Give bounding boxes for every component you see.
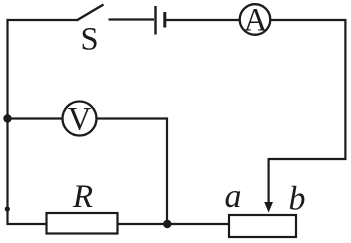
svg-text:S: S [80,22,98,58]
wire bottom right (resistor to rheostat) [117,223,230,225]
svg-text:R: R [72,179,93,215]
svg-text:a: a [225,178,242,215]
svg-text:A: A [244,3,268,39]
wire ammeter to top-right corner [271,19,347,21]
wiper arrow [264,158,273,213]
voltmeter V [8,102,168,225]
resistor R [47,179,118,234]
node junction bottom (voltmeter tap) [163,220,171,228]
node small blob left lower [5,206,10,211]
rheostat a-b [225,178,306,237]
node junction left (voltmeter tap) [3,114,11,122]
wire right vertical [344,19,346,160]
battery [156,6,240,35]
wire bottom left (to resistor) [7,223,48,225]
wire horizontal to wiper [269,158,347,160]
wire left vertical [6,19,8,225]
wire top-left horizontal [7,19,78,21]
ammeter A [240,3,271,39]
switch S [77,5,155,58]
svg-text:b: b [289,181,306,218]
svg-text:V: V [68,102,92,138]
